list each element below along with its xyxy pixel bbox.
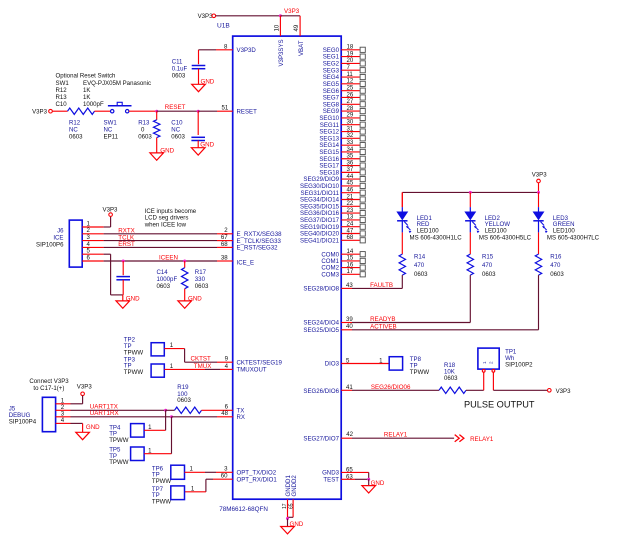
svg-text:TPWW: TPWW [124, 349, 144, 356]
svg-text:49: 49 [293, 24, 300, 31]
svg-text:0603: 0603 [171, 134, 185, 141]
svg-text:MS 605-4300H7LC: MS 605-4300H7LC [547, 235, 600, 242]
svg-text:65: 65 [289, 503, 295, 509]
svg-text:SW1: SW1 [104, 120, 118, 127]
ground C11 [192, 84, 206, 91]
svg-text:NC: NC [104, 127, 113, 134]
ground C14 [116, 301, 130, 308]
svg-text:READYB: READYB [370, 316, 395, 323]
svg-text:GND: GND [86, 424, 100, 431]
svg-text:SIP100P6: SIP100P6 [36, 241, 64, 248]
svg-text:V3P3: V3P3 [284, 8, 300, 15]
svg-text:V3P3: V3P3 [77, 384, 93, 391]
svg-text:0603: 0603 [157, 283, 171, 290]
test point TP2 [151, 343, 164, 356]
svg-text:38: 38 [221, 254, 228, 261]
resistor R18 [439, 387, 466, 393]
ground TEST [362, 486, 376, 493]
svg-text:0603: 0603 [172, 72, 186, 79]
svg-text:V3P3SYS: V3P3SYS [278, 39, 285, 66]
wire R15 to READYB [469, 275, 471, 322]
svg-text:R12: R12 [56, 87, 68, 94]
svg-text:MS 606-4300H5LC: MS 606-4300H5LC [479, 235, 532, 242]
junction R13 [155, 110, 158, 113]
svg-text:42: 42 [346, 431, 353, 438]
svg-text:TPWW: TPWW [152, 498, 172, 505]
svg-text:V3P3: V3P3 [103, 207, 119, 214]
svg-text:RELAY1: RELAY1 [470, 436, 494, 443]
wire TEST [341, 478, 355, 480]
svg-text:PULSE OUTPUT: PULSE OUTPUT [464, 399, 535, 409]
ground J5 [76, 432, 90, 439]
svg-text:TPWW: TPWW [124, 369, 144, 376]
svg-text:2: 2 [489, 361, 494, 364]
ground GNDD [281, 527, 295, 534]
wire GNDD2 [292, 499, 294, 517]
svg-text:ERST: ERST [118, 241, 135, 248]
svg-text:0603: 0603 [482, 271, 496, 278]
capacitor C11 [192, 65, 206, 67]
svg-text:SEG25/DIO5: SEG25/DIO5 [303, 327, 339, 334]
svg-text:RELAY1: RELAY1 [384, 432, 408, 439]
LED D1 LED1 [401, 192, 403, 207]
svg-text:68: 68 [221, 241, 228, 248]
svg-text:SEG28/DIO8: SEG28/DIO8 [303, 286, 339, 293]
svg-text:470: 470 [550, 262, 561, 269]
svg-text:J6: J6 [57, 227, 64, 234]
svg-text:43: 43 [346, 282, 353, 289]
svg-text:470: 470 [414, 262, 425, 269]
svg-text:LED100: LED100 [553, 228, 576, 235]
svg-text:SW1: SW1 [56, 80, 70, 87]
svg-text:10: 10 [273, 24, 280, 31]
svg-text:1K: 1K [83, 87, 90, 94]
capacitor C14 [116, 276, 130, 278]
wire net ERST [104, 246, 217, 248]
svg-text:E_RST/SEG32: E_RST/SEG32 [237, 245, 279, 252]
svg-text:0603: 0603 [69, 134, 83, 141]
svg-text:GNDD2: GNDD2 [291, 475, 298, 497]
svg-text:V3P3: V3P3 [32, 108, 48, 115]
wire net TCLK [104, 240, 217, 242]
svg-text:V3P3: V3P3 [556, 388, 572, 395]
wire C14 bottom [122, 280, 124, 295]
wire net CKTST [185, 361, 217, 363]
wire V3P3 to rail [538, 183, 540, 193]
wire TP1 pin1 [483, 372, 485, 390]
wire net RXTX [104, 233, 217, 235]
wire R16 to ACTIVEB [538, 275, 540, 330]
wire CKTST vertical [184, 349, 186, 363]
svg-text:C14: C14 [157, 269, 169, 276]
wire pin 10 V3P3SYS [279, 16, 281, 36]
capacitor C10 [191, 136, 205, 138]
junction TEST gnd [367, 478, 370, 481]
junction V3P3 [279, 14, 282, 17]
junction TP4 [164, 409, 167, 412]
svg-text:V3P3: V3P3 [532, 171, 548, 178]
svg-text:SEG26/DIO6: SEG26/DIO6 [303, 388, 339, 395]
svg-text:SIP100P2: SIP100P2 [505, 362, 533, 369]
wire C10 to gnd [197, 141, 199, 148]
svg-text:SIP100P4: SIP100P4 [9, 418, 37, 425]
svg-text:TPWW: TPWW [410, 369, 430, 376]
wire net ICEEN [104, 260, 217, 262]
svg-text:SEG41/DIO21: SEG41/DIO21 [300, 237, 340, 244]
svg-text:TMUXOUT: TMUXOUT [237, 367, 267, 374]
svg-text:LED100: LED100 [485, 228, 508, 235]
svg-text:0603: 0603 [550, 271, 564, 278]
svg-text:R13: R13 [138, 120, 150, 127]
wire pin 49 VBAT [299, 16, 301, 36]
resistor R12 [68, 108, 95, 114]
wire J6 pin1 to V3P3 [104, 226, 111, 228]
svg-text:TPWW: TPWW [109, 459, 129, 466]
wire to C11 [199, 49, 217, 51]
svg-text:UART1RX: UART1RX [90, 410, 119, 417]
svg-text:Optional Reset Switch: Optional Reset Switch [56, 73, 116, 80]
wire OPT_RX [213, 478, 233, 480]
svg-text:1K: 1K [83, 94, 90, 101]
svg-text:CKTST: CKTST [191, 356, 212, 363]
wire C11 top [198, 50, 200, 64]
wire V3P3 to pin10 [216, 15, 281, 17]
IC U1B 78M6612-68QFN body [233, 36, 342, 499]
junction GNDD [286, 517, 289, 520]
connector J5 DEBUG [42, 397, 55, 431]
wire C10 top [197, 111, 199, 135]
wire R12 to SW1 [95, 110, 111, 112]
wire C14 top [122, 261, 124, 275]
svg-text:OPT_RX/DIO1: OPT_RX/DIO1 [237, 476, 278, 483]
junction TP5 [170, 415, 173, 418]
junction R17 [183, 260, 186, 263]
svg-text:R15: R15 [482, 253, 494, 260]
resistor R16 [535, 254, 541, 275]
svg-text:48: 48 [221, 410, 228, 417]
switch SW1 [111, 110, 114, 113]
resistor R14 [399, 254, 405, 275]
junction LED3 [537, 191, 540, 194]
test point TP3 [151, 364, 164, 377]
svg-text:0603: 0603 [177, 397, 191, 404]
svg-text:GND: GND [126, 296, 140, 303]
svg-text:R14: R14 [414, 253, 426, 260]
junction C14 [122, 260, 125, 263]
svg-text:R12: R12 [69, 120, 81, 127]
svg-text:ICE_E: ICE_E [237, 259, 255, 266]
svg-text:51: 51 [222, 105, 229, 112]
svg-text:RESET: RESET [165, 104, 186, 111]
svg-text:V3P3D: V3P3D [237, 47, 257, 54]
wire R17 top [184, 261, 186, 268]
svg-text:1000pF: 1000pF [83, 101, 104, 108]
svg-text:VBAT: VBAT [298, 40, 305, 56]
svg-text:RESET: RESET [237, 109, 258, 116]
ground R13 [150, 153, 164, 160]
wire R13 to gnd [156, 138, 158, 153]
test point TP7 [171, 486, 185, 500]
test point TP6 [171, 465, 185, 479]
svg-text:C10: C10 [56, 101, 68, 108]
svg-text:U1B: U1B [217, 23, 230, 30]
svg-text:TEST: TEST [323, 477, 339, 484]
svg-text:R17: R17 [195, 269, 207, 276]
test point TP8 [389, 357, 402, 370]
svg-text:60: 60 [221, 473, 228, 480]
wire R17 bottom [184, 289, 186, 301]
svg-text:78M6612-68QFN: 78M6612-68QFN [219, 506, 268, 513]
svg-text:TMUX: TMUX [194, 363, 212, 370]
resistor R17 [182, 268, 188, 289]
wire V3P3 to R12 [52, 110, 67, 112]
wire OPT_TX [185, 471, 206, 473]
svg-text:EVQ-PJX05M Panasonic: EVQ-PJX05M Panasonic [83, 80, 151, 87]
svg-text:SEG26/DIO06: SEG26/DIO06 [371, 384, 411, 391]
svg-text:C10: C10 [171, 120, 183, 127]
svg-text:0603: 0603 [414, 271, 428, 278]
wire to pin49 [280, 15, 300, 17]
svg-text:CKTEST/SEG19: CKTEST/SEG19 [237, 359, 283, 366]
wire TP2 pin1 [164, 348, 184, 350]
wire TP5 pin1 [144, 453, 171, 455]
wire R19 to TX [202, 409, 233, 411]
wire to pin51 [198, 110, 217, 112]
wire LED rail [402, 191, 538, 193]
wire J5 pin4 to gnd [71, 422, 83, 424]
svg-text:TPWW: TPWW [109, 437, 129, 444]
svg-text:SEG27/DIO7: SEG27/DIO7 [303, 436, 339, 443]
wire J5 pin1 to V3P3 [71, 403, 83, 405]
wire net UART1RX [71, 416, 172, 418]
wire rail to LED1 [401, 192, 403, 207]
resistor R13 [154, 120, 160, 138]
connector J6 ICE [69, 220, 82, 267]
svg-text:R13: R13 [56, 94, 68, 101]
svg-text:V3P3: V3P3 [198, 13, 214, 20]
svg-text:39: 39 [346, 316, 353, 323]
svg-text:ICE: ICE [53, 234, 63, 241]
svg-text:FAULTB: FAULTB [370, 282, 393, 289]
svg-text:ICEEN: ICEEN [159, 254, 178, 261]
wire C11 bottom [198, 69, 200, 84]
svg-text:COM3: COM3 [321, 271, 339, 278]
wire TP4 pin1 [144, 429, 166, 431]
svg-text:MS 606-4300H1LC: MS 606-4300H1LC [410, 235, 463, 242]
svg-text:RX: RX [237, 414, 245, 421]
svg-text:Connect V3P3: Connect V3P3 [29, 378, 69, 385]
svg-text:when ICEE low: when ICEE low [144, 221, 187, 228]
ground C10 [191, 148, 205, 155]
svg-text:NC: NC [69, 127, 78, 134]
wire GNDD1 [287, 499, 289, 519]
wire net TMUX [164, 368, 205, 370]
test point TP5 [131, 447, 145, 461]
ground R17 [178, 301, 192, 308]
wire RESET net [157, 110, 199, 112]
LED D2 LED2 [469, 192, 471, 207]
svg-text:0603: 0603 [195, 283, 209, 290]
svg-text:0603: 0603 [444, 375, 458, 382]
svg-text:EP11: EP11 [104, 134, 119, 141]
off-page connector RELAY1 [455, 435, 464, 442]
svg-text:to C17-1(+): to C17-1(+) [33, 385, 64, 392]
wire GND3 down [368, 472, 370, 479]
junction LED2 [469, 191, 472, 194]
svg-text:TPWW: TPWW [152, 478, 172, 485]
wire TP1 pin2 [492, 372, 494, 390]
svg-text:470: 470 [482, 262, 493, 269]
wire SW1 to R13 [129, 110, 157, 112]
wire R14 to FAULTB [401, 275, 403, 288]
resistor R15 [467, 254, 473, 275]
connector TP1 SIP100P2 [478, 348, 499, 369]
resistor R19 [175, 407, 202, 413]
wire TP1 to V3P3 [493, 389, 547, 391]
svg-text:1000pF: 1000pF [157, 276, 178, 283]
svg-text:ACTIVEB: ACTIVEB [370, 323, 396, 330]
junction C10 [197, 110, 200, 113]
svg-text:40: 40 [346, 323, 353, 330]
wire J6 pin5 down [104, 253, 111, 255]
wire R18 to TP1 [466, 389, 484, 391]
test point TP4 [131, 424, 145, 438]
svg-text:C11: C11 [172, 58, 183, 65]
svg-text:1: 1 [482, 361, 487, 364]
svg-text:LED100: LED100 [417, 228, 440, 235]
svg-text:SEG24/DIO4: SEG24/DIO4 [303, 320, 339, 327]
wire R13 top [156, 111, 158, 120]
svg-text:DIO3: DIO3 [325, 361, 340, 368]
svg-text:0.1uF: 0.1uF [172, 65, 188, 72]
LED D3 LED3 [538, 192, 540, 207]
svg-text:R16: R16 [550, 253, 562, 260]
svg-text:0603: 0603 [138, 134, 152, 141]
wire net UART1TX [71, 409, 166, 411]
svg-text:NC: NC [171, 127, 180, 134]
svg-text:330: 330 [195, 276, 206, 283]
wire pin8 [216, 49, 233, 51]
